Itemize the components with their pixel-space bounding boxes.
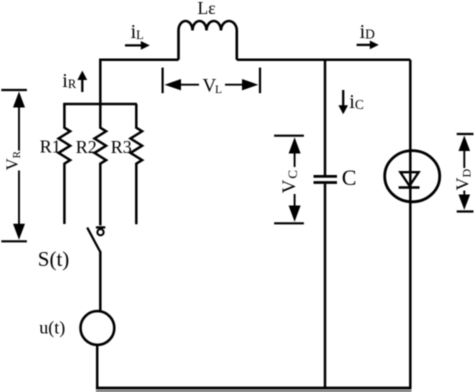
annotation V_L left arrow — [181, 84, 199, 86]
annotation V_D arrowhead down — [459, 195, 471, 210]
bottom edge shadow — [96, 390, 412, 392]
svg-text:VC: VC — [279, 169, 300, 193]
wire: bottom return — [96, 387, 412, 390]
annotation V_C arrowhead down — [289, 206, 301, 222]
annotation i_D current arrow — [357, 44, 371, 46]
wire: top-left node from resistor bus up and right to inductor — [100, 60, 178, 104]
switch S(t) blade (open) — [87, 228, 100, 252]
svg-text:R3: R3 — [111, 137, 132, 157]
annotation V_D double arrow shaft — [463, 150, 465, 198]
svg-text:R1: R1 — [40, 136, 61, 156]
annotation V_D top tick — [457, 133, 474, 135]
wire: right branch (diode branch) vertical — [409, 60, 412, 388]
wire: top segment from inductor to right branch — [237, 59, 410, 62]
diode D cathode bar — [399, 186, 420, 189]
diode D circle — [385, 151, 440, 202]
inductor L1 — [179, 21, 237, 60]
svg-text:iC: iC — [349, 91, 364, 113]
annotation i_R current arrow — [81, 80, 83, 93]
svg-text:VR: VR — [3, 150, 23, 170]
annotation i_C current arrow — [342, 90, 344, 106]
resistor R3 — [131, 104, 143, 224]
svg-text:iL: iL — [131, 21, 144, 43]
switch S(t) fixed contact bar — [96, 226, 105, 228]
annotation V_R top tick — [1, 89, 27, 91]
annotation V_R arrowhead up — [13, 92, 25, 108]
svg-text:iD: iD — [360, 21, 376, 43]
svg-text:R2: R2 — [76, 137, 97, 157]
svg-text:iR: iR — [62, 70, 77, 92]
annotation V_C top tick — [274, 135, 304, 137]
svg-text:S(t): S(t) — [38, 247, 70, 271]
resistor R1 — [59, 104, 71, 224]
resistor R2 — [95, 104, 107, 225]
wire: switch to source — [99, 251, 102, 311]
svg-text:VD: VD — [452, 169, 473, 191]
svg-text:C: C — [342, 165, 357, 190]
annotation V_L right arrow — [225, 84, 242, 86]
annotation V_C bottom tick — [274, 222, 304, 224]
wire: capacitor branch lower — [324, 184, 327, 388]
wire: resistor bus bar — [63, 103, 137, 106]
annotation V_D bottom tick — [457, 210, 474, 212]
wire: capacitor branch upper — [324, 60, 327, 175]
annotation i_L current arrow — [125, 44, 142, 46]
svg-text:VL: VL — [203, 76, 223, 97]
annotation V_D arrowhead up — [459, 136, 471, 152]
annotation V_L left tick — [162, 68, 164, 94]
diode D triangle — [400, 172, 418, 186]
annotation V_C double arrow shaft — [294, 152, 296, 207]
switch S(t) contact circle — [97, 229, 103, 235]
capacitor C bottom plate — [314, 181, 338, 184]
annotation V_L right tick — [259, 68, 261, 94]
annotation V_C arrowhead up — [289, 137, 301, 153]
annotation V_R bottom tick — [1, 240, 27, 242]
svg-text:Lε: Lε — [198, 0, 216, 18]
capacitor C top plate — [314, 175, 338, 178]
svg-text:u(t): u(t) — [39, 317, 65, 338]
wire: source to bottom return — [96, 346, 99, 388]
annotation V_R double arrow shaft — [18, 107, 20, 225]
voltage source u(t) circle — [81, 311, 115, 345]
annotation V_R arrowhead down — [13, 224, 25, 240]
